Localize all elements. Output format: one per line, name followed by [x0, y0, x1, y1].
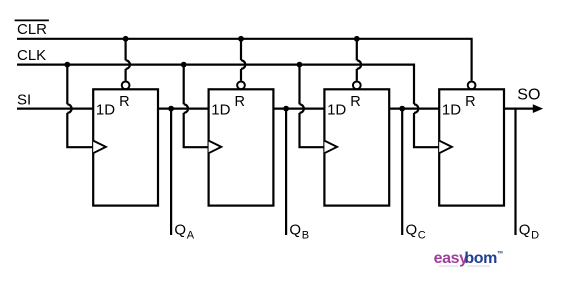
- wire CLR drop FF1 to R bubble: [124, 69, 126, 81]
- wire CLR drop FF2 upper: [240, 39, 242, 61]
- wire CLR drop FF1 upper: [124, 39, 126, 61]
- node QB label: [289, 221, 309, 241]
- svg-text:Q: Q: [174, 221, 186, 238]
- wire hop: CLK drop FF4 over Q3: [414, 104, 418, 113]
- svg-text:SI: SI: [17, 91, 31, 108]
- wire CLK drop FF3 to clock pin: [300, 113, 325, 147]
- flip-flop FF4 (D flip-flop) body: [439, 89, 504, 205]
- inverter bubble on FF4 R input: [468, 81, 476, 89]
- svg-text:R: R: [235, 94, 245, 110]
- wire hop: CLR drop FF1 over CLK bus: [126, 60, 130, 69]
- junction dot QC tap: [399, 106, 405, 112]
- wire hop: CLK drop FF3 over data wire: [300, 104, 304, 113]
- inverter bubble on FF3 R input: [353, 81, 361, 89]
- svg-text:CLR: CLR: [17, 21, 47, 38]
- svg-text:Q: Q: [406, 221, 418, 238]
- junction dot CLR to FF1: [123, 36, 129, 42]
- svg-text:1D: 1D: [327, 101, 346, 118]
- wire hop: CLK drop FF2 over data wire: [184, 104, 188, 113]
- svg-text:B: B: [302, 230, 309, 242]
- wire QB tap line: [285, 109, 287, 235]
- wire SI input: [17, 107, 93, 109]
- wire CLK drop to FF4 clock pin: [414, 113, 439, 147]
- wire Q1 from FF1 to FF2 data input: [158, 107, 209, 109]
- svg-text:bom: bom: [464, 250, 497, 267]
- svg-text:SO: SO: [517, 87, 540, 104]
- svg-text:C: C: [418, 230, 426, 242]
- node SO label: [517, 87, 540, 104]
- wire CLK drop FF3 upper: [298, 65, 300, 105]
- svg-text:easy: easy: [434, 250, 468, 267]
- junction dot CLK to FF2: [181, 62, 187, 68]
- node QC label: [406, 221, 426, 241]
- inverter bubble on FF1 R input: [122, 81, 130, 89]
- junction dot QA tap: [168, 106, 174, 112]
- logo underline marks: [439, 266, 459, 267]
- junction dot CLR to FF2: [238, 36, 244, 42]
- wire hop: CLR drop FF2 over CLK bus: [241, 60, 245, 69]
- wire CLK drop FF1 upper: [66, 65, 68, 105]
- wire CLK drop FF1 to clock pin: [67, 113, 93, 147]
- node CLR label (active-low): [17, 21, 47, 38]
- wire CLK drop FF2 to clock pin: [184, 113, 209, 147]
- svg-text:Q: Q: [289, 221, 301, 238]
- wire QD tap line: [514, 109, 516, 235]
- wire CLR drop FF3 upper: [356, 39, 358, 61]
- wire SO serial output: [504, 107, 534, 109]
- junction dot CLK to FF1: [64, 62, 70, 68]
- flip-flop FF2 (D flip-flop) body: [209, 89, 274, 205]
- svg-text:A: A: [187, 230, 195, 242]
- wire hop: CLR drop FF3 over CLK bus: [357, 60, 361, 69]
- node CLK label: [17, 47, 46, 64]
- svg-text:D: D: [531, 230, 539, 242]
- flip-flop FF1 (D flip-flop) body: [93, 89, 158, 205]
- svg-text:R: R: [350, 94, 360, 110]
- flip-flop FF3 (D flip-flop) body: [324, 89, 389, 205]
- wire QC tap line: [401, 109, 403, 235]
- svg-text:Q: Q: [519, 221, 531, 238]
- node QD label: [519, 221, 539, 241]
- svg-text:R: R: [119, 94, 129, 110]
- svg-text:1D: 1D: [442, 101, 461, 118]
- node QA label: [174, 221, 194, 241]
- wire Q3 from FF3 to FF4 data input: [389, 107, 439, 109]
- arrowhead SO output: [533, 104, 543, 113]
- wire CLR drop FF3 to R bubble: [356, 69, 358, 81]
- wire CLR drop FF2 to R bubble: [240, 69, 242, 81]
- wire CLK drop FF2 upper: [183, 65, 185, 105]
- wire CLR bus: [17, 39, 472, 81]
- svg-text:R: R: [465, 94, 475, 110]
- wire Q2 from FF2 to FF3 data input: [273, 107, 324, 109]
- svg-text:1D: 1D: [211, 101, 230, 118]
- overline of CLR: [15, 19, 49, 21]
- wire hop: CLK drop FF1 over data wire: [67, 104, 71, 113]
- junction dot QB tap: [283, 106, 289, 112]
- wire CLK bus: [17, 65, 414, 105]
- junction dot CLK to FF3: [297, 62, 303, 68]
- node SI label: [17, 91, 31, 108]
- junction dot CLR to FF3: [354, 36, 360, 42]
- svg-text:CLK: CLK: [17, 47, 46, 64]
- inverter bubble on FF2 R input: [237, 81, 245, 89]
- svg-text:1D: 1D: [96, 101, 115, 118]
- wire QA tap line: [170, 109, 172, 235]
- logo easybom (watermark): [434, 249, 504, 267]
